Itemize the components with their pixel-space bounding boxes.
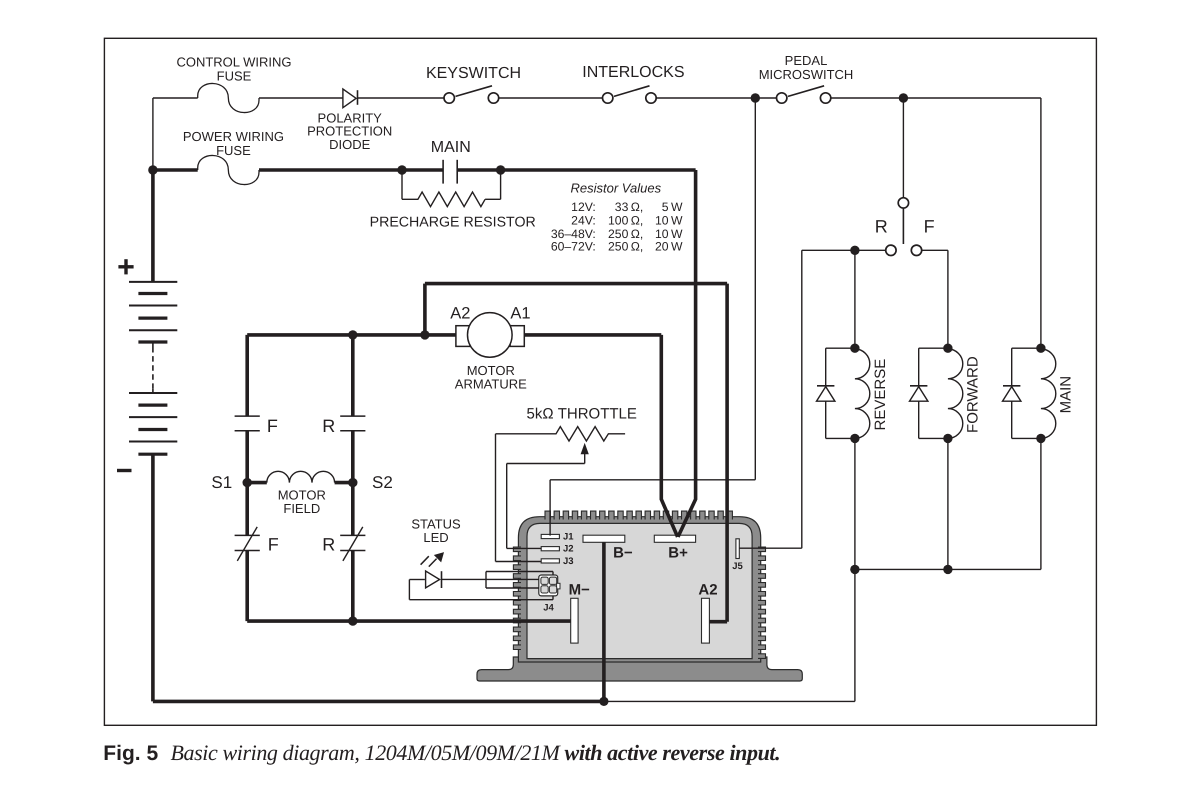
svg-text:5 W: 5 W [662,200,683,214]
svg-text:R: R [875,217,888,237]
svg-text:A1: A1 [510,304,530,322]
svg-text:10 W: 10 W [655,214,683,228]
svg-text:250 Ω,: 250 Ω, [608,240,643,254]
svg-text:S1: S1 [211,473,232,492]
svg-text:250 Ω,: 250 Ω, [608,227,643,241]
svg-text:B−: B− [613,545,633,562]
svg-text:FIELD: FIELD [283,501,320,516]
svg-text:ARMATURE: ARMATURE [455,377,527,392]
svg-text:CONTROL WIRING: CONTROL WIRING [176,54,291,69]
svg-text:POWER WIRING: POWER WIRING [183,129,284,144]
svg-text:A2: A2 [698,581,717,598]
svg-text:LED: LED [423,530,448,545]
svg-text:M−: M− [569,581,590,598]
svg-text:J4: J4 [543,603,554,614]
svg-text:PRECHARGE RESISTOR: PRECHARGE RESISTOR [370,215,536,231]
svg-text:INTERLOCKS: INTERLOCKS [582,64,684,81]
svg-text:Basic wiring diagram, 1204M/05: Basic wiring diagram, 1204M/05M/09M/21M … [171,740,781,765]
svg-text:MAIN: MAIN [1058,376,1075,414]
svg-text:F: F [924,217,935,237]
svg-text:FORWARD: FORWARD [965,356,982,433]
svg-text:Resistor Values: Resistor Values [571,181,662,196]
svg-text:MAIN: MAIN [431,139,471,156]
svg-text:R: R [322,535,335,555]
svg-text:R: R [322,416,335,436]
svg-text:REVERSE: REVERSE [872,359,889,431]
svg-text:60–72V:: 60–72V: [551,240,596,254]
svg-text:S2: S2 [372,473,393,492]
svg-text:DIODE: DIODE [329,137,371,152]
svg-text:J3: J3 [563,556,574,567]
svg-text:PEDAL: PEDAL [785,53,828,68]
svg-text:20 W: 20 W [655,240,683,254]
svg-text:B+: B+ [668,545,688,562]
svg-text:J2: J2 [563,544,574,555]
svg-text:5kΩ THROTTLE: 5kΩ THROTTLE [527,405,637,422]
svg-text:Fig. 5: Fig. 5 [103,742,158,765]
svg-text:36–48V:: 36–48V: [551,227,596,241]
svg-text:MOTOR: MOTOR [467,363,515,378]
svg-text:F: F [267,416,278,436]
svg-text:FUSE: FUSE [217,68,252,83]
svg-text:F: F [268,535,279,555]
svg-text:10 W: 10 W [655,227,683,241]
svg-text:MICROSWITCH: MICROSWITCH [759,67,854,82]
svg-text:12V:: 12V: [571,200,596,214]
svg-text:FUSE: FUSE [216,143,251,158]
svg-text:J1: J1 [563,531,574,542]
svg-text:100 Ω,: 100 Ω, [608,214,643,228]
svg-text:33 Ω,: 33 Ω, [615,200,644,214]
svg-text:KEYSWITCH: KEYSWITCH [426,65,521,82]
svg-text:24V:: 24V: [571,214,596,228]
svg-text:J5: J5 [732,561,743,572]
svg-text:A2: A2 [450,304,470,322]
